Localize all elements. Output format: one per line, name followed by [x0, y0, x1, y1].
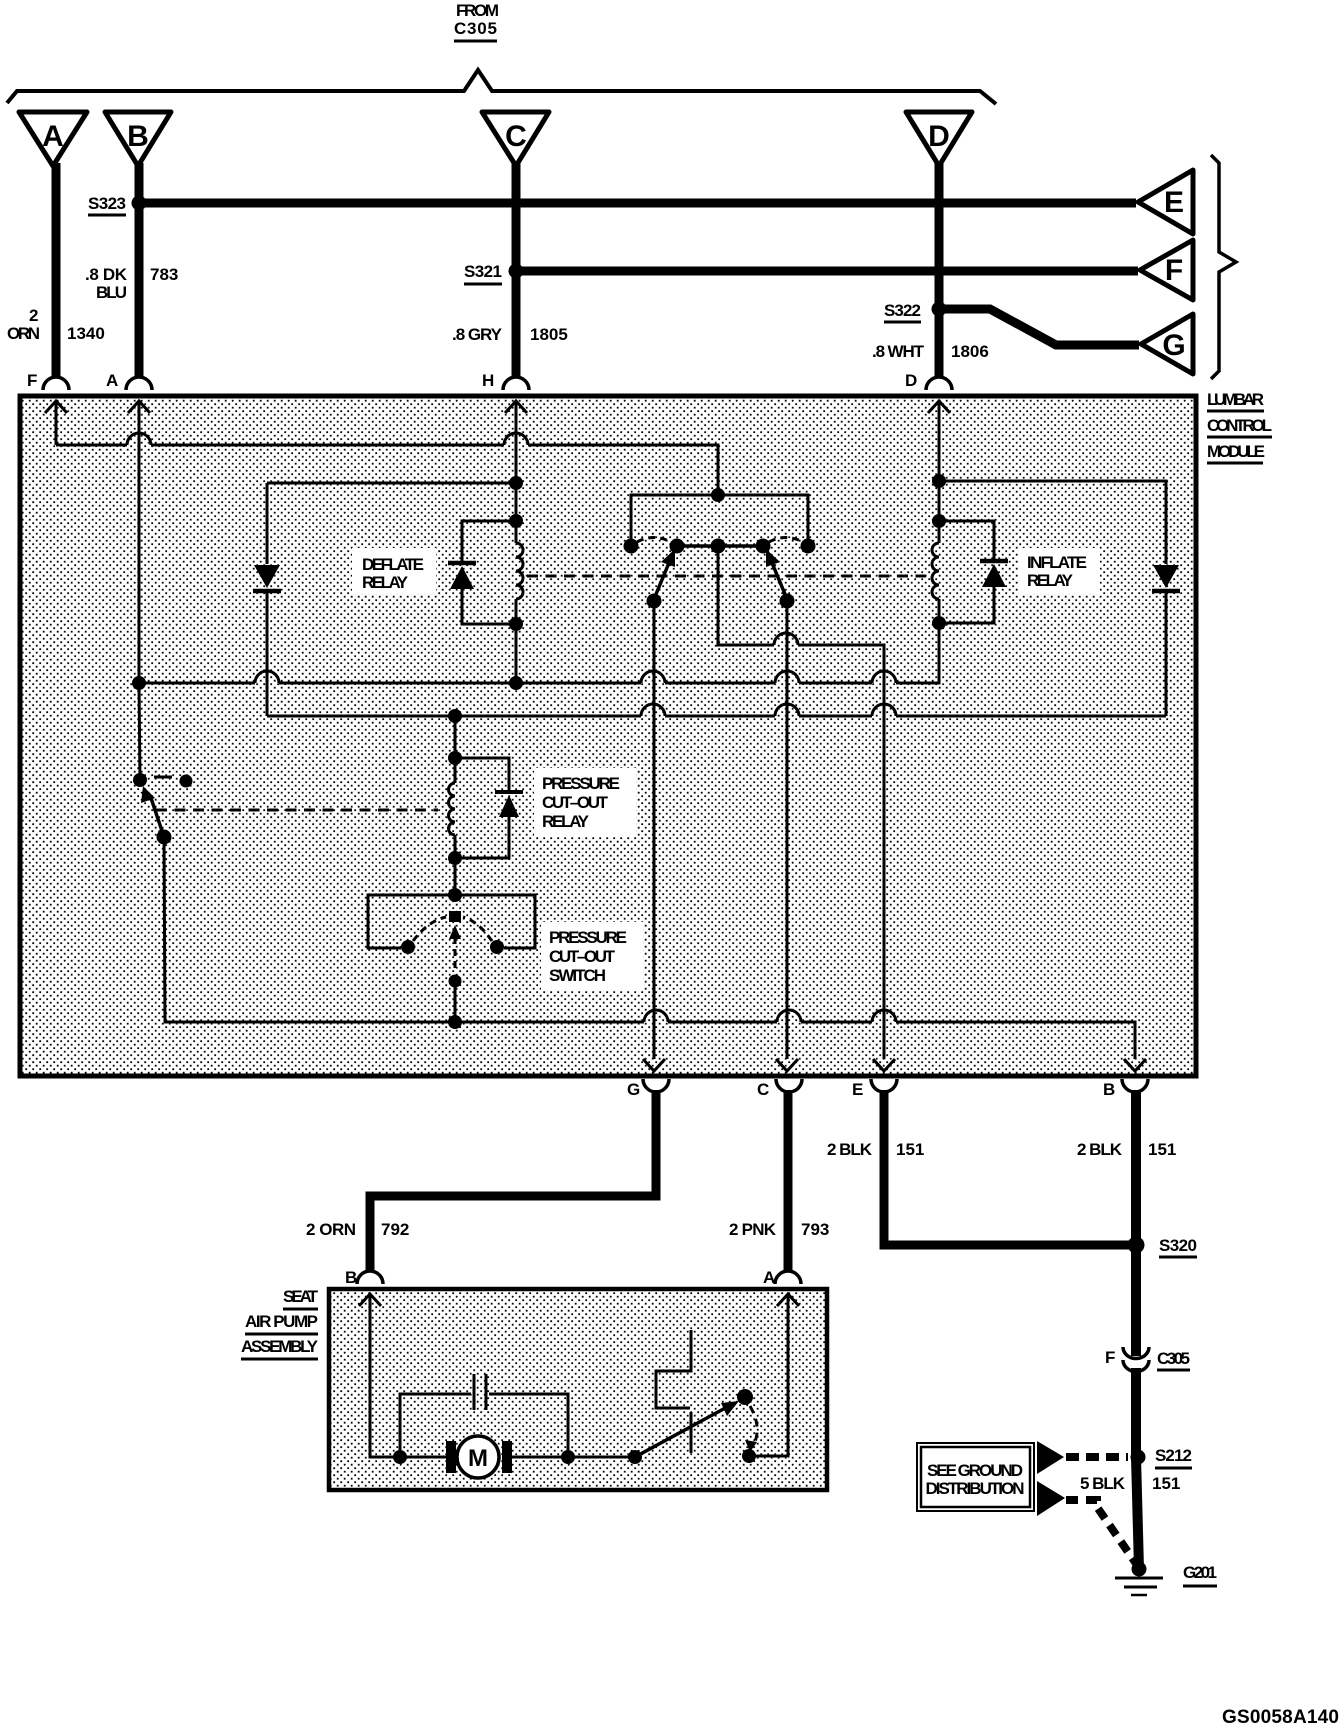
connector triangle C: [482, 112, 549, 166]
svg-text:2: 2: [29, 306, 38, 325]
see ground distribution box: [917, 1443, 1034, 1511]
pin G exit arrow: [643, 1059, 665, 1071]
label LUMBAR CONTROL MODULE: [1207, 390, 1272, 463]
dashed wire arrow to G201: [1066, 1500, 1137, 1565]
wire 2 BLK 151 pin B down: [1131, 1090, 1141, 1356]
label 2 PNK 793: [729, 1220, 829, 1239]
svg-text:RELAY: RELAY: [1027, 571, 1074, 590]
wire armature to bus y1022: [164, 837, 455, 1022]
label PRESSURE CUT-OUT RELAY: [534, 768, 636, 836]
wire contact common to pin E: [718, 546, 884, 1059]
switch contact dots: [401, 940, 504, 954]
deflate armature arm: [647, 549, 676, 609]
node D top junction: [932, 474, 946, 488]
wire 2 ORN 792 pin G to pump B: [370, 1090, 656, 1272]
label 2 BLK 151 B: [1077, 1140, 1176, 1159]
wire diode CR1 top rail to H line: [267, 482, 516, 485]
svg-text:D: D: [928, 120, 950, 153]
svg-text:M: M: [468, 1445, 488, 1472]
brace right of E F G: [1211, 155, 1236, 379]
svg-text:792: 792: [381, 1220, 409, 1239]
svg-text:S321: S321: [464, 262, 502, 281]
wire armature G to pin G: [653, 601, 656, 1059]
pin F entry arrow: [45, 401, 67, 445]
mechanical link dashed pressure relay: [156, 809, 438, 812]
svg-text:DEFLATE: DEFLATE: [362, 555, 424, 574]
svg-text:A: A: [42, 120, 64, 153]
diode CR1 left: [253, 483, 281, 716]
label 5 BLK 151: [1080, 1474, 1180, 1493]
svg-text:G201: G201: [1183, 1563, 1217, 1582]
svg-text:151: 151: [1148, 1140, 1176, 1159]
svg-text:.8 DK: .8 DK: [85, 265, 128, 284]
svg-text:PRESSURE: PRESSURE: [549, 928, 627, 947]
svg-text:A: A: [106, 371, 118, 390]
svg-text:S322: S322: [884, 301, 921, 320]
svg-text:1340: 1340: [67, 324, 105, 343]
wire S212 to G201: [1136, 1457, 1139, 1569]
node contact rail center: [711, 488, 725, 502]
switch dashed actuator arrow: [449, 925, 462, 988]
svg-text:FROM: FROM: [456, 1, 499, 20]
svg-text:PRESSURE: PRESSURE: [542, 774, 620, 793]
node S212: [1131, 1446, 1193, 1468]
wire splice to E: [139, 199, 1136, 208]
wire splice to G: [939, 309, 1139, 345]
ground distribution arrow bottom: [1037, 1481, 1065, 1516]
svg-text:A: A: [763, 1268, 775, 1287]
pump switch arm: [635, 1389, 753, 1457]
svg-text:D: D: [905, 371, 917, 390]
svg-text:H: H: [482, 371, 494, 390]
svg-text:SEAT: SEAT: [283, 1287, 319, 1306]
node H top junction: [509, 476, 523, 490]
node S323: [88, 194, 147, 215]
svg-text:C305: C305: [1157, 1349, 1190, 1368]
svg-text:DISTRIBUTION: DISTRIBUTION: [926, 1479, 1025, 1498]
connector triangle D: [906, 112, 972, 166]
connector C305 inline: [1105, 1347, 1190, 1372]
node S321: [464, 262, 524, 284]
pump pin A cup: [763, 1268, 801, 1287]
label PRESSURE CUT-OUT SWITCH: [541, 922, 643, 990]
svg-text:2 BLK: 2 BLK: [1077, 1140, 1123, 1159]
pin A entry arrow: [128, 401, 150, 683]
pressure relay flyback diode: [455, 758, 523, 858]
connector triangle B: [105, 112, 171, 166]
svg-text:E: E: [1164, 186, 1184, 219]
wire A branch down: [139, 683, 140, 780]
svg-text:E: E: [852, 1080, 863, 1099]
wire 2 BLK 151 pin E to S320: [884, 1090, 1131, 1245]
node motor right: [561, 1450, 575, 1464]
svg-text:G: G: [1162, 329, 1185, 362]
pin D entry arrow: [928, 401, 950, 683]
label 2 ORN 792: [306, 1220, 409, 1239]
pin B exit arrow: [1124, 1059, 1146, 1071]
node bus y1022 at switch: [448, 1015, 462, 1029]
svg-text:B: B: [127, 120, 149, 153]
node S320: [1128, 1236, 1198, 1257]
deflate relay flyback diode: [448, 521, 516, 624]
diode CR2 right: [1152, 565, 1180, 716]
svg-text:F: F: [1105, 1348, 1115, 1367]
pump switch dashed arc: [742, 1406, 757, 1463]
svg-text:C: C: [757, 1080, 769, 1099]
svg-text:MODULE: MODULE: [1207, 442, 1265, 461]
svg-text:INFLATE: INFLATE: [1027, 553, 1087, 572]
pin F cup: [27, 371, 69, 390]
svg-text:BLU: BLU: [96, 283, 127, 302]
wire to pressure relay coil: [454, 716, 457, 758]
wire motor row right: [512, 1456, 635, 1459]
wire bus y683 from A to inflate coil: [139, 625, 939, 683]
inflate relay coil: [932, 514, 946, 630]
dashed contact arc left: [637, 538, 671, 543]
lumbar control module box: [20, 396, 1196, 1076]
svg-text:SWITCH: SWITCH: [549, 966, 606, 985]
svg-text:ASSEMBLY: ASSEMBLY: [241, 1337, 319, 1356]
svg-text:S320: S320: [1159, 1236, 1197, 1255]
connector triangle F: [1140, 240, 1193, 300]
node bus junction at pressure relay top: [448, 709, 462, 723]
connector triangle E: [1138, 170, 1193, 234]
svg-text:AIR PUMP: AIR PUMP: [245, 1312, 318, 1331]
dashed contact arc right: [769, 538, 803, 543]
svg-text:151: 151: [1152, 1474, 1180, 1493]
pin H entry arrow: [505, 401, 527, 683]
contact row link wire: [677, 544, 763, 548]
svg-text:.8 WHT: .8 WHT: [872, 342, 925, 361]
wire motor row left: [400, 1456, 448, 1459]
svg-text:S212: S212: [1155, 1446, 1192, 1465]
pump switch contact step: [656, 1330, 691, 1453]
motor M: [446, 1436, 512, 1478]
node switch arm pivot: [628, 1450, 642, 1464]
relay contact top rail: [631, 495, 808, 539]
svg-text:LUMBAR: LUMBAR: [1207, 390, 1264, 409]
wire D to diode CR2: [939, 481, 1166, 564]
svg-text:CUT–OUT: CUT–OUT: [542, 793, 609, 812]
wire 2 PNK 793 pin C to pump A: [784, 1090, 793, 1272]
wire switch to bus y1022: [454, 987, 457, 1022]
svg-text:C305: C305: [454, 19, 497, 38]
svg-text:2 ORN: 2 ORN: [306, 1220, 356, 1239]
svg-text:ORN: ORN: [7, 324, 40, 343]
mechanical link dashed deflate-inflate: [527, 575, 926, 578]
brace from C305: [7, 70, 996, 104]
svg-text:5 BLK: 5 BLK: [1080, 1474, 1126, 1493]
node switch top: [448, 888, 462, 902]
inflate relay flyback diode: [939, 521, 1008, 623]
svg-text:GS0058A140: GS0058A140: [1222, 1707, 1339, 1728]
label 2 ORN: [7, 306, 40, 343]
svg-text:F: F: [1165, 254, 1183, 287]
wire bus y1022 to pin B: [455, 1010, 1135, 1059]
svg-text:2 BLK: 2 BLK: [827, 1140, 873, 1159]
svg-text:S323: S323: [88, 194, 126, 213]
node pump left: [393, 1450, 407, 1464]
pin A cup: [106, 371, 152, 390]
label DEFLATE RELAY: [352, 548, 436, 594]
wire B vertical .8 DK BLU 783: [135, 163, 144, 378]
pressure relay fixed contact dash and dot: [154, 775, 193, 788]
pin G cup: [627, 1079, 669, 1099]
switch dashed arc right: [463, 917, 492, 941]
connector triangle G: [1141, 314, 1193, 374]
svg-text:C: C: [505, 120, 527, 153]
pin B cup: [1103, 1079, 1148, 1099]
seat air pump assembly box: [329, 1289, 827, 1490]
label INFLATE RELAY: [1018, 548, 1100, 594]
svg-text:B: B: [1103, 1080, 1115, 1099]
svg-text:G: G: [627, 1080, 640, 1099]
wire C305 to S212: [1131, 1368, 1141, 1457]
connector triangle A: [19, 112, 87, 166]
svg-text:RELAY: RELAY: [362, 573, 409, 592]
svg-text:1806: 1806: [951, 342, 989, 361]
pressure cut-out switch body: [368, 895, 535, 948]
pin H cup: [482, 371, 529, 390]
label .8 DK BLU: [85, 265, 128, 302]
ground G201: [1115, 1562, 1217, 1596]
pump pin B cup: [345, 1268, 383, 1287]
switch center contact: [449, 911, 461, 922]
svg-text:B: B: [345, 1268, 357, 1287]
svg-text:SEE GROUND: SEE GROUND: [927, 1461, 1023, 1480]
svg-text:CUT–OUT: CUT–OUT: [549, 947, 616, 966]
pressure cut-out relay coil: [448, 751, 462, 865]
pressure relay armature contact node: [133, 773, 147, 787]
label SEAT AIR PUMP ASSEMBLY: [241, 1287, 319, 1359]
svg-text:CONTROL: CONTROL: [1207, 416, 1272, 435]
pin D cup: [905, 371, 952, 390]
contact row dots: [624, 539, 816, 554]
pump pin B entry arrow: [359, 1294, 400, 1457]
svg-text:.8 GRY: .8 GRY: [452, 325, 503, 344]
svg-text:2 PNK: 2 PNK: [729, 1220, 777, 1239]
wire relay to switch: [454, 858, 457, 895]
pin E cup: [852, 1079, 897, 1099]
switch dashed arc left: [413, 917, 446, 941]
svg-text:F: F: [27, 371, 37, 390]
node S322: [884, 301, 947, 322]
svg-text:783: 783: [150, 265, 178, 284]
battery capacitor branch: [400, 1374, 568, 1457]
svg-text:793: 793: [801, 1220, 829, 1239]
pressure relay armature arm: [141, 786, 172, 845]
wire bus y716 diode CR1 to diode CR2: [267, 704, 1166, 716]
pin C exit arrow: [776, 1059, 798, 1071]
svg-text:1805: 1805: [530, 325, 568, 344]
wire D vertical .8 WHT 1806: [935, 163, 944, 378]
label FROM C305: [454, 1, 499, 41]
wire armature C to pin C: [786, 601, 789, 1059]
pin E exit arrow: [873, 1059, 895, 1071]
wire A vertical 2 ORN 1340: [52, 163, 61, 378]
node deflate coil bottom bus junction: [509, 676, 523, 690]
inflate armature arm: [766, 549, 795, 609]
svg-text:151: 151: [896, 1140, 924, 1159]
pump pin A entry arrow: [749, 1294, 799, 1456]
node A-branch junction: [132, 676, 146, 690]
wire splice to F: [516, 267, 1138, 276]
svg-text:RELAY: RELAY: [542, 812, 590, 831]
deflate relay coil: [509, 514, 523, 631]
dashed wire S212 to arrow: [1066, 1453, 1128, 1461]
label 2 BLK 151 E: [827, 1140, 924, 1159]
ground distribution arrow top: [1037, 1441, 1064, 1474]
wire from pin F to relay contacts common: [56, 433, 718, 495]
wire C vertical .8 GRY 1805: [512, 163, 521, 378]
pin C cup: [757, 1079, 802, 1099]
